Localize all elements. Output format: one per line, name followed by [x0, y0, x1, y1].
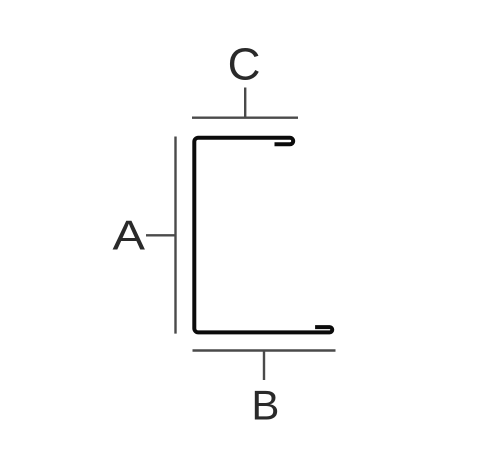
- dimension line A: [174, 137, 176, 334]
- svg-text:B: B: [251, 381, 279, 428]
- C-channel profile: [194, 138, 332, 333]
- dimension line B: [193, 349, 336, 351]
- label A: [112, 212, 145, 259]
- tick for A: [146, 234, 176, 236]
- tick for B: [263, 351, 265, 381]
- svg-text:A: A: [112, 212, 145, 259]
- dimension line C: [192, 116, 298, 118]
- tick for C: [244, 88, 246, 118]
- svg-text:C: C: [228, 39, 261, 90]
